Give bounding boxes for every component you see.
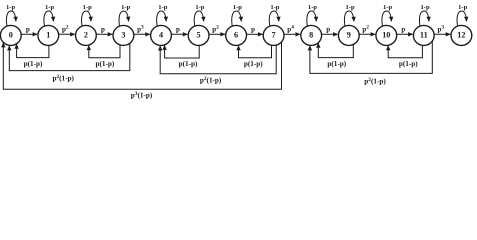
svg-text:p(1-p): p(1-p) [96,60,115,68]
svg-text:p3(1-p): p3(1-p) [131,91,153,99]
backward arc 7 to 0, p^3(1-p) [3,42,281,89]
svg-text:p: p [326,25,330,33]
arrow 8 to 9 [322,33,338,35]
self-loop state 9 [344,11,353,26]
svg-text:1-p: 1-p [45,4,54,11]
svg-text:1-p: 1-p [308,4,317,11]
arrow 2 to 3 [96,33,112,35]
svg-text:p2(1-p): p2(1-p) [200,76,222,84]
arrow 10 to 11 [397,33,413,35]
state 12 circle [451,25,472,45]
arrow 7 to 8 [284,33,300,35]
svg-text:p: p [251,25,255,33]
svg-text:4: 4 [159,30,163,39]
svg-text:1-p: 1-p [6,4,15,11]
svg-text:p(1-p): p(1-p) [244,60,263,68]
self-loop state 3 [119,11,128,26]
backward arc 5 to 4, p(1-p) [165,45,200,58]
state 10 circle [376,25,397,45]
self-loop state 4 [157,11,166,26]
svg-text:5: 5 [197,30,201,39]
svg-text:1-p: 1-p [195,4,204,11]
svg-text:1-p: 1-p [270,4,279,11]
svg-text:1-p: 1-p [383,4,392,11]
svg-text:3: 3 [121,30,125,39]
state 3 circle [113,25,134,45]
arrow 3 to 4 [134,33,150,35]
svg-text:2: 2 [84,30,88,39]
backward arc 11 to 8, p^2(1-p) [310,41,432,73]
arrow 11 to 12 [434,33,450,35]
arrow 5 to 6 [209,33,225,35]
state 11 circle [413,25,434,45]
svg-text:7: 7 [272,30,276,39]
svg-text:1-p: 1-p [421,4,430,11]
state 5 circle [188,25,209,45]
state 0 circle [0,25,21,45]
self-loop state 0 [6,11,15,26]
svg-text:1-p: 1-p [346,4,355,11]
backward arc 1 to 0, p(1-p) [17,44,49,57]
self-loop state 1 [44,11,53,26]
arrow 6 to 7 [247,33,263,35]
svg-text:p(1-p): p(1-p) [327,60,346,68]
backward arc 7 to 6, p(1-p) [239,45,272,58]
state 1 circle [38,25,59,45]
svg-text:11: 11 [420,30,428,39]
svg-text:p2(1-p): p2(1-p) [52,74,74,82]
svg-text:p(1-p): p(1-p) [24,60,43,68]
svg-text:10: 10 [382,30,390,39]
svg-text:1: 1 [46,30,50,39]
backward arc 7 to 4, p^2(1-p) [160,45,276,74]
arrow 1 to 2 [59,33,75,35]
state 6 circle [226,25,247,45]
svg-text:8: 8 [309,30,313,39]
arrow 4 to 5 [171,33,187,35]
self-loop state 8 [307,11,316,26]
backward arc 11 to 10, p(1-p) [388,45,422,58]
svg-text:0: 0 [9,30,13,39]
svg-text:p: p [401,25,405,33]
svg-text:p(1-p): p(1-p) [399,60,418,68]
svg-text:9: 9 [347,30,351,39]
backward arc 9 to 8, p(1-p) [318,43,353,57]
backward arc 3 to 0, p^2(1-p) [9,43,130,70]
svg-text:p(1-p): p(1-p) [179,60,198,68]
state 2 circle [76,25,97,45]
svg-text:1-p: 1-p [158,4,167,11]
self-loop state 2 [82,11,91,26]
arrow 0 to 1 [21,33,37,35]
svg-text:p: p [26,25,30,33]
svg-text:1-p: 1-p [83,4,92,11]
svg-text:1-p: 1-p [121,4,130,11]
state 4 circle [151,25,172,45]
svg-text:12: 12 [457,30,465,39]
self-loop state 12 [457,11,466,26]
state 8 circle [301,25,322,45]
self-loop state 10 [382,11,391,26]
backward arc 3 to 2, p(1-p) [89,45,120,58]
self-loop state 11 [419,11,428,26]
svg-text:1-p: 1-p [458,4,467,11]
self-loop state 7 [269,11,279,26]
state 7 circle [263,25,284,45]
svg-text:6: 6 [234,30,238,39]
svg-text:p: p [176,25,180,33]
self-loop state 6 [232,11,241,26]
arrow 9 to 10 [359,33,375,35]
state 9 circle [338,25,359,45]
svg-text:1-p: 1-p [233,4,242,11]
svg-text:p2(1-p): p2(1-p) [364,77,386,85]
self-loop state 5 [194,11,203,26]
svg-text:p: p [101,25,105,33]
